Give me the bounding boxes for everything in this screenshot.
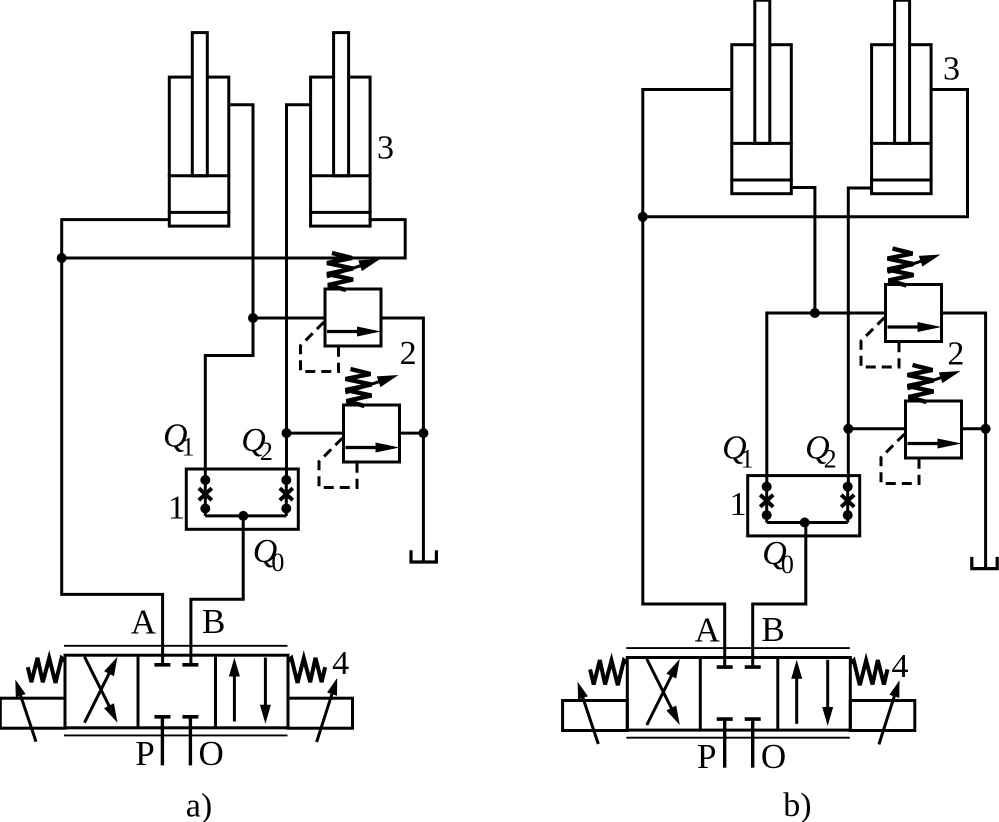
svg-text:b): b)	[783, 787, 811, 822]
svg-text:O: O	[761, 737, 786, 776]
svg-text:B: B	[202, 602, 225, 641]
svg-text:P: P	[697, 737, 716, 776]
svg-text:2: 2	[947, 336, 964, 373]
svg-text:A: A	[131, 603, 157, 642]
svg-text:1: 1	[168, 490, 185, 527]
svg-text:a): a)	[186, 788, 212, 822]
svg-text:P: P	[135, 734, 154, 773]
svg-text:4: 4	[332, 645, 349, 682]
svg-text:3: 3	[377, 130, 394, 167]
svg-text:B: B	[761, 610, 784, 649]
svg-text:O: O	[199, 734, 224, 773]
svg-text:3: 3	[943, 51, 960, 88]
svg-text:4: 4	[892, 648, 909, 685]
svg-text:A: A	[695, 611, 721, 650]
svg-text:1: 1	[730, 486, 747, 523]
svg-text:2: 2	[400, 335, 417, 372]
